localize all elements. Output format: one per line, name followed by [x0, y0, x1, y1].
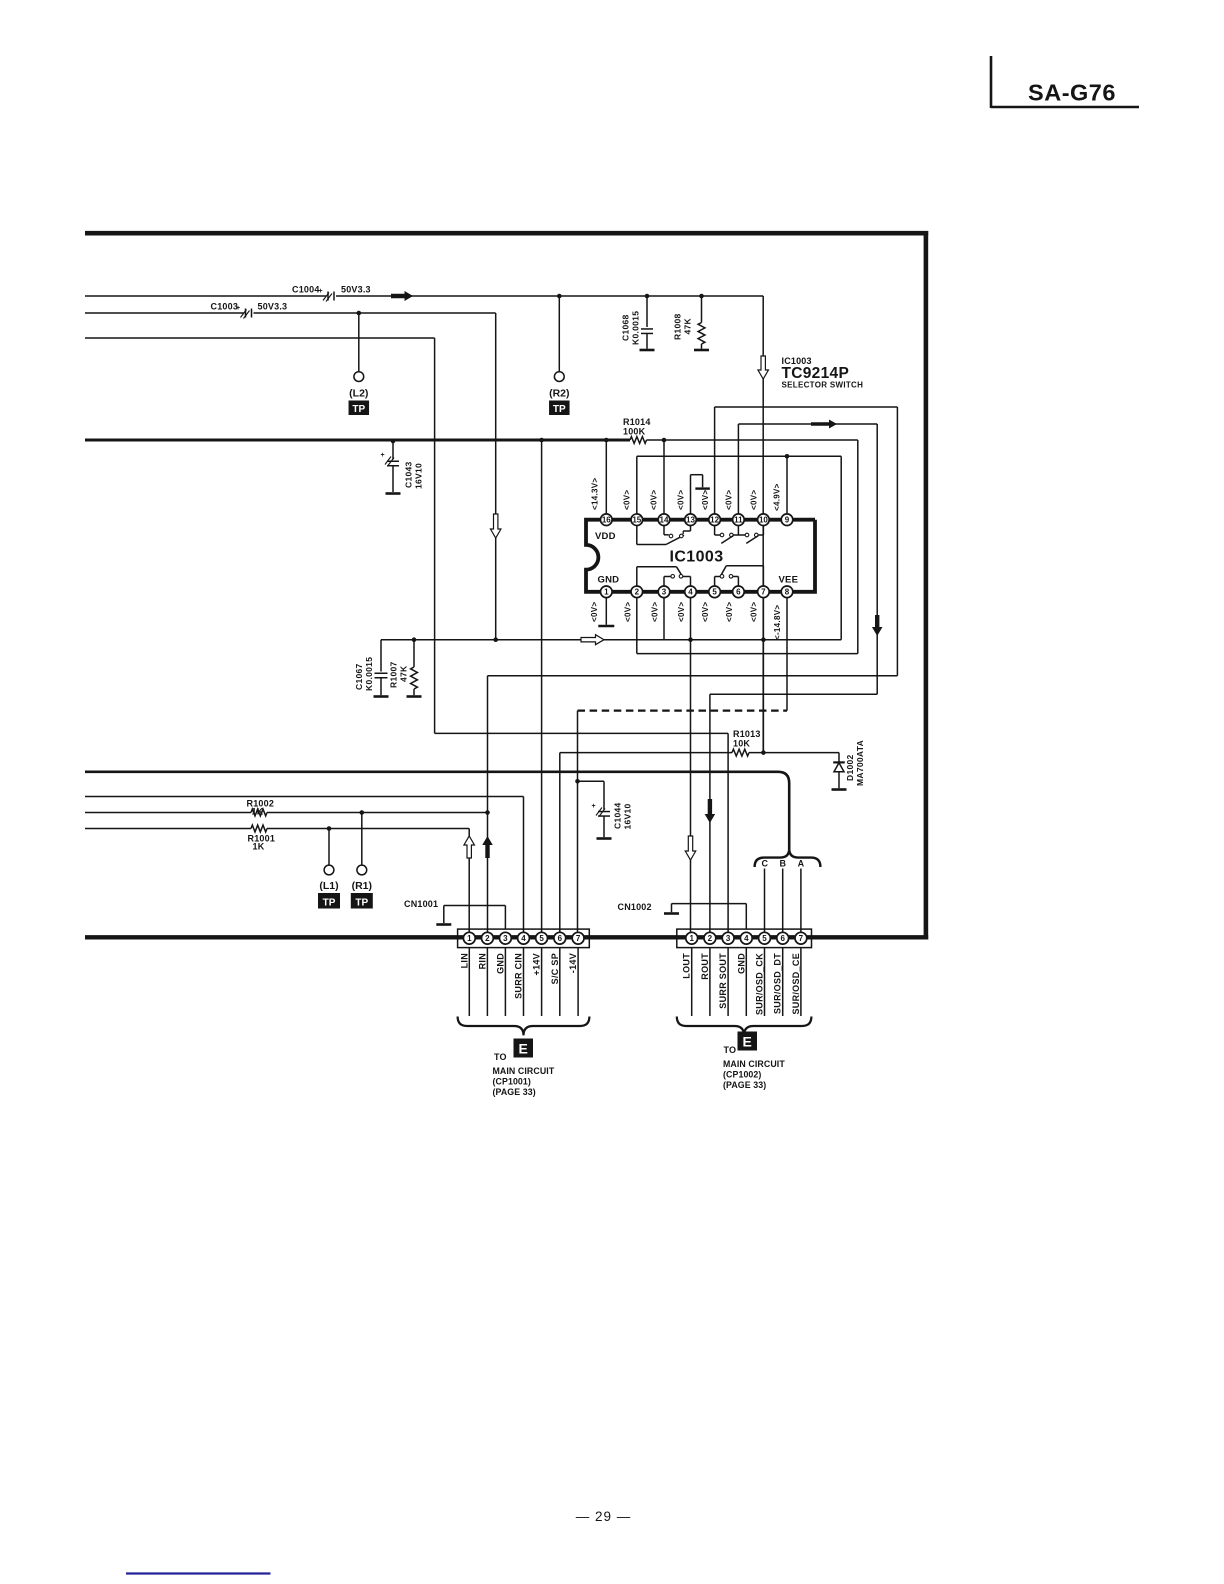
svg-text:(CP1002): (CP1002) [723, 1070, 761, 1080]
svg-text:TO: TO [724, 1045, 737, 1055]
bus split brace C B A [755, 849, 821, 867]
svg-text:GND: GND [598, 575, 620, 586]
svg-text:4: 4 [521, 934, 526, 943]
wire IC pin8 VEE down to dashed rail [786, 592, 788, 711]
svg-text:<14.3V>: <14.3V> [591, 478, 600, 510]
svg-text:14: 14 [660, 516, 669, 525]
svg-text:<0V>: <0V> [750, 490, 759, 510]
svg-text:47K: 47K [683, 317, 693, 334]
svg-text:3: 3 [726, 934, 731, 943]
svg-text:4: 4 [744, 934, 749, 943]
node A [798, 859, 805, 869]
label VDD [595, 531, 616, 542]
ground bar below C1068 [640, 349, 655, 352]
test point TP (L2) [349, 372, 370, 415]
node (L1) stub [328, 829, 330, 866]
schematic border bottom [85, 935, 928, 939]
page number [576, 1509, 632, 1524]
resistor R1013 [732, 729, 761, 756]
svg-text:CN1002: CN1002 [618, 902, 652, 912]
wire C1004 net vertical to IC pin10/pin7 [762, 296, 764, 753]
label IC1003 TC9214P SELECTOR SWITCH [782, 356, 864, 390]
ground bar CN1002 [664, 912, 679, 915]
wire surround bus [85, 772, 789, 849]
switch S3 pole from pin15 [637, 525, 684, 544]
svg-text:— 29 —: — 29 — [576, 1509, 632, 1524]
svg-text:TP: TP [355, 897, 368, 908]
label MAIN CIRCUIT (CP1001) (PAGE 33) [493, 1066, 555, 1097]
svg-text:1K: 1K [253, 842, 265, 852]
svg-text:<0V>: <0V> [590, 602, 599, 622]
wire B to CN1002 pin6 [782, 869, 784, 938]
svg-text:<0V>: <0V> [750, 602, 759, 622]
connector CN1002 box [677, 929, 812, 948]
signal arrow down (R) above IC [758, 356, 769, 379]
switch S2 [715, 566, 764, 586]
svg-text:SELECTOR SWITCH: SELECTOR SWITCH [782, 381, 864, 390]
svg-text:<0V>: <0V> [701, 602, 710, 622]
svg-text:IC1003: IC1003 [670, 549, 724, 566]
svg-text:MAIN CIRCUIT: MAIN CIRCUIT [723, 1059, 785, 1069]
svg-text:7: 7 [761, 588, 766, 597]
svg-text:MAIN CIRCUIT: MAIN CIRCUIT [493, 1066, 555, 1076]
svg-text:<0V>: <0V> [677, 602, 686, 622]
svg-text:3: 3 [503, 934, 508, 943]
svg-text:TP: TP [323, 897, 336, 908]
svg-text:<0V>: <0V> [623, 490, 632, 510]
svg-text:1: 1 [604, 588, 609, 597]
label CN1001 [404, 899, 438, 909]
ground bar below C1044 [597, 837, 612, 840]
node voltage <0V> pin12 [701, 490, 710, 510]
svg-text:16: 16 [602, 516, 611, 525]
connector destination E box 2 [738, 1032, 758, 1051]
wire CN1001 ground bracket [444, 906, 506, 930]
signal arrow down (R) on ROUT [705, 799, 716, 823]
svg-text:+14V: +14V [532, 953, 542, 975]
svg-text:100K: 100K [623, 427, 646, 437]
IC1003 top pin circles 16-9 [601, 514, 793, 526]
signal arrow up (R) on RIN drop [482, 836, 493, 858]
svg-text:4: 4 [688, 588, 693, 597]
node B [780, 859, 787, 869]
signal arrow up (L) on LIN drop [464, 836, 475, 858]
IC1003 bottom pin circles 1-8 [601, 586, 793, 598]
svg-text:10: 10 [759, 516, 768, 525]
wire A L-channel [381, 637, 841, 642]
svg-text:D1002: D1002 [845, 754, 855, 781]
switch S4 wiring [715, 525, 764, 535]
svg-text:R1014: R1014 [623, 417, 651, 427]
labels CN1001 pin names [459, 953, 578, 999]
svg-text:RIN: RIN [477, 953, 487, 969]
wire A to CN1002 pin7 [800, 869, 802, 938]
signal arrow down (R) on pin11 loop right leg [872, 615, 883, 636]
svg-text:(R1): (R1) [352, 880, 372, 892]
ground bar below D1002 [832, 788, 847, 791]
svg-text:E: E [519, 1041, 528, 1057]
node voltage <0V> pin1 [590, 602, 599, 622]
wire VDD bus thin to right loop [637, 440, 858, 654]
svg-text:C1003: C1003 [211, 302, 239, 312]
svg-text:6: 6 [558, 934, 563, 943]
svg-text:-14V: -14V [568, 953, 578, 973]
capacitor C1004 [292, 285, 371, 302]
svg-text:10K: 10K [733, 739, 750, 749]
svg-text:8: 8 [785, 588, 790, 597]
test point TP (R2) [549, 372, 570, 415]
svg-text:<-14.8V>: <-14.8V> [773, 605, 782, 640]
ground bar below R1007 [407, 695, 422, 698]
svg-text:K0.0015: K0.0015 [364, 657, 374, 691]
svg-text:47K: 47K [399, 665, 409, 682]
resistor R1007 [389, 640, 418, 696]
svg-text:(L1): (L1) [319, 880, 338, 892]
svg-text:2: 2 [635, 588, 640, 597]
svg-text:1: 1 [467, 934, 472, 943]
svg-text:5: 5 [712, 588, 717, 597]
svg-text:7: 7 [799, 934, 804, 943]
footer blue rule [126, 1572, 271, 1574]
svg-text:LIN: LIN [459, 953, 469, 968]
title block SA-G76 corner rule [991, 56, 1139, 108]
svg-text:C1068: C1068 [621, 314, 631, 341]
svg-text:S/C SP: S/C SP [550, 953, 560, 984]
svg-text:(CP1001): (CP1001) [493, 1077, 531, 1087]
wire C1003 net vertical [495, 313, 497, 640]
ground bar below R1008 [694, 349, 709, 352]
svg-text:(L2): (L2) [349, 388, 368, 400]
wire SURR CIN [85, 797, 524, 938]
wire R1013 net [560, 750, 839, 937]
wire IC pin14 [662, 438, 667, 520]
svg-text:CN1001: CN1001 [404, 899, 438, 909]
resistor R1001 [248, 825, 276, 851]
brace CN1001 to main circuit [458, 1017, 590, 1036]
svg-text:(PAGE 33): (PAGE 33) [493, 1087, 536, 1097]
svg-text:SUR/OSD_CK: SUR/OSD_CK [755, 953, 765, 1015]
ground bar IC pin1 [598, 625, 614, 628]
connector CN1001 pins 1-7 [463, 932, 584, 944]
svg-text:K0.0015: K0.0015 [631, 311, 641, 345]
connector CN1001 box [458, 929, 590, 948]
wire -14V to CN1001 pin7 [575, 711, 580, 937]
wire IC pin4 to CN1002 pin1 (LOUT) [688, 592, 693, 937]
connector destination E box 1 [514, 1039, 534, 1058]
node voltage <0V> pin2 [624, 602, 633, 622]
svg-text:VEE: VEE [779, 575, 799, 586]
ground bar below C1067 [374, 695, 389, 698]
wire IC pin1 to ground [605, 592, 607, 625]
svg-text:+: + [592, 803, 596, 810]
IC1003 body outline [586, 520, 815, 592]
svg-text:<0V>: <0V> [651, 602, 660, 622]
capacitor C1044 [578, 781, 633, 837]
svg-text:<0V>: <0V> [624, 602, 633, 622]
svg-text:3: 3 [662, 588, 667, 597]
ground bar CN1001 [436, 923, 451, 926]
svg-text:5: 5 [539, 934, 544, 943]
wire C1003 net horizontal [85, 312, 496, 314]
svg-text:C1067: C1067 [354, 663, 364, 690]
node voltage <0V> pin13 [677, 490, 686, 510]
wire RIN [85, 810, 490, 815]
ground bar below C1043 [386, 492, 401, 495]
label MAIN CIRCUIT (CP1002) (PAGE 33) [723, 1059, 785, 1090]
svg-text:TP: TP [553, 404, 566, 415]
node voltage <4.9V> [773, 483, 782, 511]
svg-text:<0V>: <0V> [725, 602, 734, 622]
capacitor C1067 [354, 640, 388, 696]
wire IC pin13 stub [691, 475, 703, 520]
label TO [494, 1052, 507, 1062]
svg-text:TC9214P: TC9214P [782, 365, 850, 382]
node voltage <0V> pin14 [650, 490, 659, 510]
svg-text:12: 12 [710, 516, 719, 525]
wires CN1002 pin drops [692, 948, 801, 1016]
wires CN1001 pin drops [469, 948, 578, 1016]
svg-text:13: 13 [686, 516, 695, 525]
terminal bar pin13 stub [695, 487, 710, 489]
svg-text:16V10: 16V10 [414, 463, 424, 489]
svg-text:7: 7 [576, 934, 581, 943]
svg-text:<0V>: <0V> [725, 490, 734, 510]
wire CN1002 ground bracket [672, 904, 747, 929]
switch S3 contacts [664, 525, 691, 537]
test point TP (L1) [318, 865, 340, 908]
label IC1003 inside [670, 549, 724, 566]
svg-text:9: 9 [785, 516, 790, 525]
test point TP (R1) [351, 865, 373, 908]
wire VDD bus thick [85, 439, 630, 442]
wire C to CN1002 pin5 [764, 869, 766, 938]
diode D1002 [833, 740, 865, 788]
svg-text:<4.9V>: <4.9V> [773, 483, 782, 511]
node voltage <0V> pin7 [750, 602, 759, 622]
svg-text:TO: TO [494, 1052, 507, 1062]
node C [761, 859, 768, 869]
svg-text:C: C [761, 859, 768, 869]
resistor R1014 [623, 417, 651, 443]
node voltage <0V> pin4 [677, 602, 686, 622]
svg-text:1K: 1K [252, 807, 264, 817]
label CN1002 [618, 902, 652, 912]
node (L2) stub [357, 311, 362, 372]
switch S1 [637, 567, 691, 586]
wire IC pin11 loop [710, 424, 877, 937]
svg-text:1: 1 [689, 934, 694, 943]
svg-text:B: B [780, 859, 787, 869]
svg-text:E: E [743, 1034, 752, 1050]
resistor R1008 [673, 294, 705, 349]
svg-text:<0V>: <0V> [677, 490, 686, 510]
svg-text:50V3.3: 50V3.3 [258, 302, 288, 312]
node (R2) stub [557, 294, 562, 372]
title text SA-G76 [1028, 80, 1116, 106]
svg-text:VDD: VDD [595, 531, 616, 542]
svg-text:C1043: C1043 [404, 461, 414, 488]
resistor R1002 [247, 799, 275, 817]
labels CN1002 pin names [682, 953, 801, 1015]
signal arrow down (L) on C1003 drop [490, 514, 501, 538]
svg-text:R1008: R1008 [673, 313, 683, 340]
svg-text:(R2): (R2) [549, 388, 569, 400]
svg-text:5: 5 [762, 934, 767, 943]
capacitor C1003 [211, 302, 288, 319]
wire C1004 net horizontal [85, 295, 763, 297]
svg-text:SURR SOUT: SURR SOUT [718, 953, 728, 1009]
wire LIN [85, 826, 469, 937]
node voltage <0V> pin10 [750, 490, 759, 510]
wire IC pin9 [785, 454, 790, 520]
svg-text:GND: GND [495, 953, 505, 974]
dashed VEE rail [578, 709, 788, 711]
wire IC pin15 loop [637, 456, 841, 639]
node voltage <0V> pin3 [651, 602, 660, 622]
node voltage <0V> pin15 [623, 490, 632, 510]
svg-text:50V3.3: 50V3.3 [341, 285, 371, 295]
schematic border right [924, 231, 929, 940]
svg-text:MA700ATA: MA700ATA [855, 740, 865, 786]
signal arrow right (R) on pin11 loop [811, 420, 837, 429]
node voltage <0V> pin11 [725, 490, 734, 510]
svg-text:LOUT: LOUT [682, 953, 692, 979]
connector CN1002 pins 1-7 [686, 932, 807, 944]
svg-text:15: 15 [632, 516, 641, 525]
svg-text:+: + [381, 452, 385, 459]
wire IC pin3 to wire-A [663, 592, 665, 640]
signal arrow down (L) on LOUT [685, 836, 696, 860]
svg-text:ROUT: ROUT [700, 953, 710, 980]
svg-text:6: 6 [780, 934, 785, 943]
svg-text:C1004: C1004 [292, 285, 320, 295]
svg-text:<0V>: <0V> [650, 490, 659, 510]
svg-text:6: 6 [736, 588, 741, 597]
svg-text:<0V>: <0V> [701, 490, 710, 510]
signal arrow right (L) on wire A [581, 635, 604, 645]
wire surround-in [85, 338, 728, 937]
svg-text:16V10: 16V10 [623, 803, 633, 829]
brace CN1002 to main circuit [677, 1017, 812, 1036]
wire IC pin16 VDD [604, 438, 609, 520]
node voltage <-14.8V> [773, 605, 782, 640]
capacitor C1043 [381, 439, 424, 492]
svg-text:SURR CIN: SURR CIN [514, 953, 524, 999]
label TO 2 [724, 1045, 737, 1055]
svg-text:11: 11 [734, 516, 743, 525]
signal arrow right (R) on C1004 wire [391, 291, 413, 301]
node voltage <14.3V> [591, 478, 600, 510]
svg-text:SUR/OSD_DT: SUR/OSD_DT [773, 953, 783, 1014]
schematic border top [85, 231, 928, 236]
wire IC pin12 loop [488, 407, 898, 937]
svg-text:A: A [798, 859, 805, 869]
svg-text:R1007: R1007 [389, 661, 399, 688]
node voltage <0V> pin6 [725, 602, 734, 622]
svg-text:SA-G76: SA-G76 [1028, 80, 1116, 106]
svg-text:GND: GND [736, 953, 746, 974]
svg-text:TP: TP [352, 404, 365, 415]
svg-text:(PAGE 33): (PAGE 33) [723, 1080, 766, 1090]
svg-text:2: 2 [485, 934, 490, 943]
switch S4 contacts and levers [720, 533, 758, 543]
svg-text:SUR/OSD_CE: SUR/OSD_CE [791, 953, 801, 1015]
node (R1) stub [361, 813, 363, 866]
svg-text:C1044: C1044 [613, 802, 623, 829]
svg-text:R1013: R1013 [733, 729, 761, 739]
wire +14V from VDD bus to CN1001 pin5 [539, 438, 544, 937]
wire IC pin7 down to R1013 node [761, 592, 766, 753]
label VEE [779, 575, 799, 586]
label GND [598, 575, 620, 586]
capacitor C1068 [621, 294, 654, 349]
node voltage <0V> pin5 [701, 602, 710, 622]
svg-text:2: 2 [708, 934, 713, 943]
